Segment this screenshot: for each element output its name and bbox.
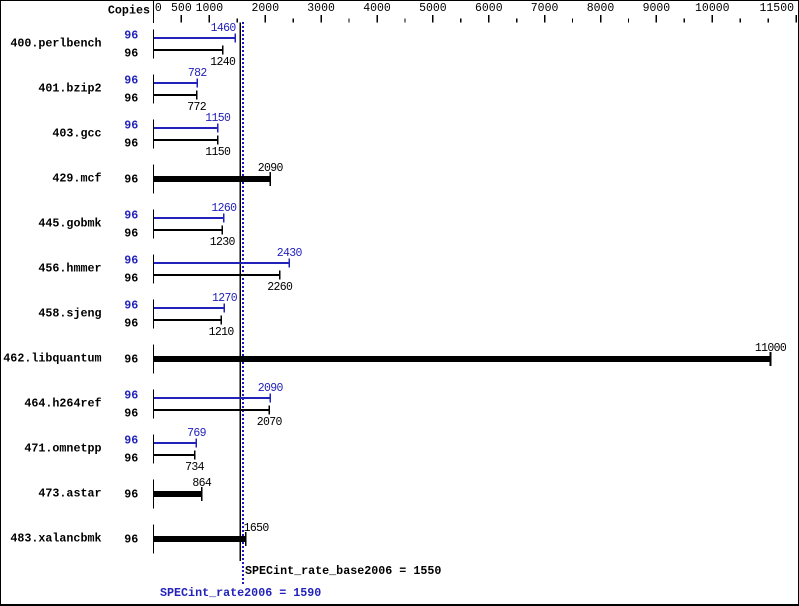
svg-text:2260: 2260 [267,281,293,294]
svg-text:96: 96 [124,137,138,151]
svg-text:2090: 2090 [258,382,284,395]
svg-text:2000: 2000 [251,2,279,15]
benchmark group 445.gobmk [38,202,237,249]
svg-text:8000: 8000 [587,2,615,15]
benchmark group 462.libquantum [3,342,787,374]
benchmark group 456.hmmer [38,247,302,294]
svg-text:1460: 1460 [211,22,237,35]
svg-text:96: 96 [124,533,138,547]
svg-text:1270: 1270 [212,292,238,305]
svg-text:96: 96 [124,29,138,43]
svg-text:5000: 5000 [419,2,447,15]
SPECint_rate_base2006 reference line (1550) [239,23,241,562]
x axis tick marks [181,15,797,23]
svg-text:96: 96 [124,47,138,61]
svg-text:7000: 7000 [531,2,559,15]
x axis scale labels [155,2,794,15]
svg-text:96: 96 [124,92,138,106]
svg-text:96: 96 [124,173,138,187]
svg-text:1650: 1650 [244,522,270,535]
svg-text:1240: 1240 [210,56,236,69]
svg-text:1260: 1260 [211,202,237,215]
svg-text:500: 500 [171,2,192,15]
benchmark group 400.perlbench [10,22,236,69]
svg-text:96: 96 [124,353,138,367]
svg-text:471.omnetpp: 471.omnetpp [24,442,101,456]
svg-text:96: 96 [124,299,138,313]
svg-text:96: 96 [124,74,138,88]
svg-text:462.libquantum: 462.libquantum [3,352,101,366]
svg-text:1210: 1210 [209,326,235,339]
svg-text:1230: 1230 [210,236,236,249]
svg-text:96: 96 [124,119,138,133]
svg-text:769: 769 [187,427,207,440]
svg-text:96: 96 [124,452,138,466]
svg-text:473.astar: 473.astar [38,487,101,501]
svg-text:96: 96 [124,254,138,268]
svg-text:96: 96 [124,488,138,502]
svg-text:772: 772 [187,101,207,114]
svg-text:6000: 6000 [475,2,503,15]
svg-text:1000: 1000 [196,2,224,15]
svg-text:SPECint_rate_base2006 = 1550: SPECint_rate_base2006 = 1550 [245,564,441,578]
svg-text:4000: 4000 [363,2,391,15]
svg-text:11000: 11000 [755,342,787,355]
svg-text:9000: 9000 [643,2,671,15]
svg-text:11500: 11500 [759,2,794,15]
svg-text:96: 96 [124,317,138,331]
benchmark group 429.mcf [52,162,283,194]
svg-text:0: 0 [155,2,162,15]
svg-text:456.hmmer: 456.hmmer [38,262,101,276]
svg-text:864: 864 [192,477,212,490]
svg-text:96: 96 [124,272,138,286]
svg-text:403.gcc: 403.gcc [52,127,101,141]
benchmark group 471.omnetpp [24,427,206,474]
benchmark group 483.xalancbmk [10,522,269,554]
svg-text:SPECint_rate2006 = 1590: SPECint_rate2006 = 1590 [160,586,321,600]
SPECint_rate2006 dotted reference line (1590) [242,22,244,585]
svg-text:2090: 2090 [258,162,284,175]
svg-text:1150: 1150 [205,112,231,125]
svg-text:96: 96 [124,434,138,448]
benchmark group 458.sjeng [38,292,237,339]
svg-text:2070: 2070 [257,416,283,429]
svg-text:782: 782 [188,67,208,80]
benchmark group 401.bzip2 [38,67,207,114]
svg-text:3000: 3000 [307,2,335,15]
svg-text:96: 96 [124,227,138,241]
svg-text:429.mcf: 429.mcf [52,172,101,186]
svg-text:Copies: Copies [108,4,150,18]
axis origin vertical line [153,0,154,23]
svg-text:96: 96 [124,389,138,403]
svg-text:458.sjeng: 458.sjeng [38,307,101,321]
benchmark group 464.h264ref [24,382,283,429]
svg-text:464.h264ref: 464.h264ref [24,397,101,411]
svg-text:1150: 1150 [205,146,231,159]
svg-text:445.gobmk: 445.gobmk [38,217,101,231]
svg-text:10000: 10000 [695,2,730,15]
benchmark group 403.gcc [52,112,231,159]
svg-text:96: 96 [124,407,138,421]
svg-text:483.xalancbmk: 483.xalancbmk [10,532,101,546]
svg-text:96: 96 [124,209,138,223]
svg-text:400.perlbench: 400.perlbench [10,37,101,51]
benchmark group 473.astar [38,477,212,509]
svg-text:2430: 2430 [277,247,303,260]
svg-text:401.bzip2: 401.bzip2 [38,82,101,96]
svg-text:734: 734 [185,461,205,474]
